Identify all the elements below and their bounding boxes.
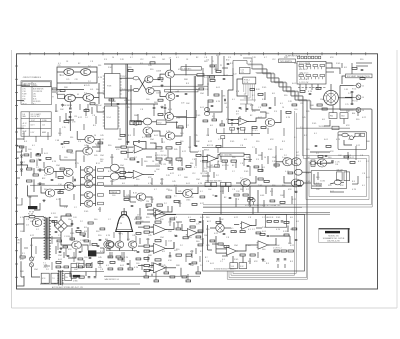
legend table 1: [21, 81, 52, 105]
capacitor C253: [215, 195, 218, 196]
volume box b: [239, 263, 247, 269]
transistor Q6: [145, 76, 153, 83]
svg-text:4.7K: 4.7K: [52, 161, 57, 163]
capacitor C93: [284, 259, 287, 260]
wire: [104, 275, 200, 277]
scanned page left edge: [11, 50, 13, 308]
svg-text:B 60: B 60: [226, 59, 229, 61]
resistor R56: [261, 127, 266, 129]
U7 feedback loop: [207, 161, 218, 168]
wire: [127, 232, 129, 239]
capacitor C233: [127, 141, 130, 142]
svg-text:B 32: B 32: [133, 192, 137, 194]
resistor R86: [166, 147, 172, 149]
wire: [149, 245, 153, 247]
resistor R80: [121, 146, 126, 148]
capacitor C80: [71, 223, 74, 224]
svg-text:T 6: T 6: [22, 101, 24, 103]
wire: [54, 189, 64, 191]
svg-text:B64: B64: [105, 239, 108, 241]
wire: [186, 110, 188, 128]
svg-text:SOUND MODULE FRAME 2: SOUND MODULE FRAME 2: [214, 268, 236, 271]
resistor R334: [146, 135, 151, 137]
wire: [167, 214, 177, 216]
left-mid wires 3: [17, 146, 43, 205]
transistor Q32: [32, 219, 42, 227]
resistor R222: [352, 67, 357, 69]
resistor R348: [200, 196, 205, 198]
svg-text:0.1: 0.1: [58, 63, 61, 65]
svg-text:IC 8: IC 8: [42, 278, 45, 280]
transistor Q18: [84, 167, 92, 174]
connector G output: [354, 95, 361, 100]
sub-board row 1 parts: [299, 65, 325, 77]
resistor R200: [60, 90, 65, 92]
resistor R146: [250, 254, 255, 256]
wire U15 in: [234, 223, 239, 225]
resistor R164: [30, 160, 34, 162]
wire: [219, 217, 221, 224]
wire Q8 top: [169, 59, 171, 70]
wire: [69, 272, 71, 278]
wire left feed: [17, 165, 28, 168]
capacitor C601: [159, 263, 162, 264]
wire: [275, 155, 277, 168]
resistor R288: [216, 221, 221, 223]
wire: [60, 190, 65, 194]
svg-text:4.7K: 4.7K: [134, 267, 139, 269]
svg-text:D 880: D 880: [73, 280, 78, 282]
resistor R367: [66, 214, 71, 216]
capacitor C284: [199, 221, 202, 222]
wire base: [81, 169, 85, 171]
svg-text:C 8: C 8: [178, 161, 181, 163]
resistor R126: [155, 221, 161, 223]
wire base: [81, 203, 85, 205]
resistor R604: [196, 272, 201, 274]
resistor R273: [56, 261, 61, 263]
junction: [245, 244, 246, 245]
capacitor C275: [89, 257, 92, 258]
top-right board tick grid: [300, 67, 323, 79]
pill stack right: [204, 108, 209, 112]
wire: [125, 177, 132, 179]
resistor R602: [164, 272, 169, 274]
resistor R276: [98, 261, 103, 263]
capacitor C45: [246, 109, 249, 110]
junction: [161, 81, 162, 82]
resistor R601: [154, 280, 159, 282]
svg-text:R 9: R 9: [78, 141, 81, 143]
wire: [69, 102, 71, 108]
svg-text:CIRCUIT SYMBOLS: CIRCUIT SYMBOLS: [23, 77, 42, 79]
wire: [151, 274, 153, 276]
label box above PCM: [240, 68, 251, 74]
resistor R132: [183, 237, 188, 239]
capacitor C96: [39, 159, 42, 160]
svg-text:4.7: 4.7: [154, 189, 157, 191]
wire: [104, 175, 110, 177]
svg-text:1.2: 1.2: [88, 65, 91, 67]
capacitor C402: [79, 251, 82, 252]
wire: [20, 261, 22, 277]
capacitor C92: [277, 259, 280, 260]
svg-text:10: 10: [94, 135, 96, 137]
svg-text:C 8: C 8: [204, 57, 207, 59]
wire: [30, 184, 302, 186]
wire Q11 out: [274, 110, 281, 123]
transistor Q4: [83, 94, 94, 102]
svg-text:Q 75: Q 75: [22, 89, 26, 91]
resistor R315: [262, 104, 267, 106]
svg-text:B 51: B 51: [96, 163, 100, 165]
IC U2 pins: [103, 108, 120, 126]
resistor R510: [170, 276, 175, 278]
scattered value labels: [20, 57, 371, 273]
svg-text:R 9: R 9: [228, 57, 231, 59]
svg-text:0.1: 0.1: [174, 196, 177, 198]
wire: [149, 250, 153, 252]
title block shadow right: [348, 228, 349, 243]
svg-text:102: 102: [224, 103, 227, 105]
wire: [132, 248, 134, 251]
svg-text:CHK W/ SET: CHK W/ SET: [31, 116, 40, 118]
capacitor C223: [361, 70, 364, 71]
wire U7 to delay line: [217, 155, 221, 159]
wire Q7-Q9: [154, 91, 166, 97]
capacitor C85: [169, 256, 172, 257]
svg-text:C 2.2: C 2.2: [176, 118, 180, 120]
wire: [130, 196, 137, 198]
resistor R22: [136, 121, 141, 125]
svg-text:R 9: R 9: [274, 111, 277, 113]
svg-text:C 68: C 68: [55, 140, 59, 142]
resistor R90: [146, 204, 151, 206]
svg-text:4.7: 4.7: [130, 57, 133, 59]
svg-text:0.01: 0.01: [90, 89, 93, 91]
long double vertical x194 b: [195, 76, 197, 146]
resistor R12: [64, 121, 69, 123]
svg-text:GR 45120: GR 45120: [33, 101, 40, 103]
CRT neck connector circle: [324, 90, 339, 105]
wire: [61, 238, 72, 245]
capacitor C289: [223, 233, 226, 234]
wire stub from border: [17, 127, 25, 129]
wire: [104, 186, 302, 188]
svg-text:10: 10: [112, 57, 114, 59]
ellipse gate B: [110, 173, 119, 180]
wire: [341, 181, 344, 183]
extra speckle labels middle band: [58, 55, 309, 201]
legend table 2 text: [22, 113, 48, 136]
wire: [210, 227, 216, 229]
svg-text:4.7K: 4.7K: [106, 235, 111, 237]
op-amp U11: [152, 263, 167, 273]
wire: [115, 172, 120, 174]
border tick marks left: [15, 66, 18, 277]
legend table 1 rows: [22, 89, 43, 106]
wire: [245, 158, 252, 160]
bottom row box b: [79, 264, 85, 268]
resistor R96: [231, 160, 236, 162]
wire: [228, 123, 239, 125]
resistor R501: [116, 256, 121, 258]
svg-text:PLATFORM OF TH: PLATFORM OF TH: [286, 54, 301, 57]
svg-text:NOT: NOT: [33, 83, 36, 85]
svg-text:C 2058 NTC: C 2058 NTC: [182, 68, 192, 70]
transistor Q8: [165, 70, 174, 78]
capacitor C83b: [94, 277, 97, 278]
transistor Q19: [84, 174, 92, 181]
svg-text:VR 11: VR 11: [22, 103, 26, 105]
audio section outer box: [203, 215, 305, 272]
resistor R114: [20, 256, 25, 258]
svg-text:B64: B64: [352, 113, 355, 115]
svg-text:B2: B2: [196, 57, 198, 59]
wire: [60, 233, 62, 239]
svg-text:4.7K: 4.7K: [336, 139, 341, 141]
svg-text:406-733-4-720: 406-733-4-720: [327, 241, 339, 243]
resistor R311: [203, 120, 208, 122]
svg-text:6 8 1 50: 6 8 1 50: [222, 165, 229, 167]
svg-text:1.8: 1.8: [169, 57, 171, 59]
resistor R505: [136, 222, 141, 224]
resistor R130: [176, 254, 181, 256]
wire: [348, 135, 349, 136]
bottom-center extra wires: [112, 220, 200, 268]
wire: [207, 225, 209, 250]
wire: [31, 238, 33, 257]
diode D10: [20, 155, 22, 157]
resistor R98: [258, 178, 263, 180]
resistor R403: [84, 240, 89, 242]
resistor R252: [258, 169, 263, 171]
svg-text:C 98: C 98: [22, 91, 25, 93]
svg-text:C 08: C 08: [168, 241, 172, 243]
capacitor C216: [269, 108, 272, 109]
resistor R83: [120, 177, 125, 179]
resistor R27: [158, 114, 163, 116]
resistor R202: [84, 109, 89, 111]
capacitor C287: [127, 263, 130, 264]
svg-text:0.1: 0.1: [200, 191, 203, 193]
svg-text:C 1.75: C 1.75: [335, 162, 340, 164]
op-amp U15: [240, 222, 252, 230]
ellipse gate pair lower: [143, 118, 151, 125]
wire: [40, 283, 140, 285]
scanned page right edge: [396, 50, 398, 308]
transistor Q12: [85, 135, 95, 143]
wire: [111, 98, 113, 106]
capacitor C401: [67, 255, 70, 256]
degauss coil box: [338, 132, 367, 150]
resistor R507: [176, 228, 181, 230]
tone circle: [216, 224, 224, 232]
wire: [215, 236, 217, 253]
op-amp U14: [257, 241, 270, 249]
resistor R504: [128, 268, 133, 270]
resistor R328: [98, 142, 103, 144]
svg-text:0.1: 0.1: [198, 151, 201, 153]
resistor R128: [155, 259, 161, 261]
capacitor C61: [159, 162, 162, 163]
svg-text:E 8: E 8: [325, 101, 328, 103]
resistor R214: [258, 93, 263, 95]
wire: [95, 166, 97, 206]
resistor R271: [92, 243, 97, 245]
transistor Q37: [128, 241, 136, 248]
resistor R101: [234, 194, 239, 196]
resistor R11: [90, 103, 95, 105]
wire Q26 out: [192, 187, 198, 194]
transistor Q15: [64, 168, 74, 176]
resistor R88: [166, 158, 172, 160]
connector B output: [354, 108, 361, 113]
resistor R502: [108, 268, 113, 270]
wire: [287, 226, 289, 233]
fuse F1: [29, 216, 35, 218]
ellipse high box: [311, 160, 315, 166]
resistor R407: [86, 264, 91, 266]
REG box: [65, 274, 72, 281]
wire: [139, 208, 141, 216]
gate ellipse D: [296, 180, 304, 186]
small box above bus b: [240, 127, 245, 130]
wire U13-U14: [237, 245, 259, 251]
yoke neck box: [122, 212, 127, 215]
transistor Q1: [64, 69, 74, 76]
diode D6: [39, 183, 41, 185]
wire: [228, 118, 239, 120]
wire: [166, 267, 177, 269]
wire Q3-Q4: [75, 97, 83, 99]
wire: [217, 132, 260, 134]
svg-text:4.7K: 4.7K: [286, 117, 291, 119]
svg-text:4.7K: 4.7K: [166, 131, 171, 133]
svg-text:J4: J4: [362, 97, 364, 99]
svg-text:C28: C28: [75, 79, 78, 81]
resistor R262: [326, 145, 331, 147]
resistor R277: [136, 232, 141, 234]
wire diode stack: [21, 150, 23, 176]
svg-text:R 1: R 1: [22, 253, 25, 255]
label box PRESS: [109, 190, 120, 193]
wire: [216, 248, 226, 250]
wire: [203, 212, 330, 214]
svg-text:F64: F64: [330, 116, 333, 118]
wire U12 net: [182, 224, 187, 231]
svg-text:L 68: L 68: [168, 222, 171, 224]
wire: [37, 183, 44, 185]
svg-text:C86 C87: C86 C87: [337, 170, 343, 172]
svg-text:SM 21: SM 21: [204, 150, 209, 152]
wire: [98, 98, 100, 105]
degauss part b: [360, 133, 364, 136]
wire: [33, 168, 35, 174]
svg-text:B 2: B 2: [205, 257, 208, 259]
wire base: [81, 183, 85, 185]
svg-text:C12: C12: [166, 189, 169, 191]
resistor R21: [130, 121, 135, 125]
capacitor C46: [224, 99, 225, 102]
resistor R291: [260, 233, 265, 235]
resistor R305: [109, 99, 114, 101]
transistor Q7: [146, 87, 154, 94]
svg-text:1 25: 1 25: [345, 104, 349, 106]
resistor R113: [79, 276, 84, 278]
junction: [207, 83, 208, 84]
wire: [61, 216, 72, 220]
wire: [208, 249, 213, 251]
svg-text:C 8: C 8: [258, 107, 261, 109]
wire: [197, 232, 203, 234]
svg-text:P2: P2: [220, 65, 222, 67]
resistor R162: [20, 146, 24, 148]
regulator box A: [41, 273, 49, 283]
resistor R246: [174, 200, 179, 202]
transistor Q27: [241, 179, 251, 187]
wire: [166, 121, 178, 123]
wire: [304, 182, 312, 184]
wire CRT top: [330, 84, 332, 90]
wire Q4 to loop: [94, 83, 99, 98]
svg-text:a 41 a 4 B: a 41 a 4 B: [299, 69, 308, 71]
label box TOP VERT DEFLECTION: [346, 74, 373, 78]
capacitor C292: [267, 235, 270, 236]
diode D12: [20, 169, 22, 171]
capacitor C12: [69, 108, 72, 109]
capacitor C257: [295, 191, 298, 192]
resistor R123: [144, 250, 149, 252]
PCM left loop wire: [237, 79, 247, 104]
IC U2 box: [105, 106, 119, 129]
resistor R345: [166, 196, 171, 198]
wire degauss internals: [338, 134, 342, 136]
diode D5: [39, 169, 41, 171]
wire: [73, 185, 76, 187]
transistor Q16: [64, 182, 74, 190]
resistor R232: [120, 134, 125, 136]
capacitor C50: [61, 143, 64, 144]
svg-text:4.7: 4.7: [178, 175, 181, 177]
ground G5: [59, 247, 62, 250]
transistor Q35: [106, 241, 114, 248]
transistor Q31: [317, 159, 327, 167]
svg-text:330: 330: [266, 113, 269, 115]
resistor R379: [136, 258, 141, 260]
center tile long verticals: [24, 128, 284, 176]
label box NTC: [181, 67, 201, 70]
wire: [291, 161, 293, 163]
capacitor C213: [211, 106, 214, 107]
wire Q23-Q24: [152, 131, 165, 136]
capacitor C272: [99, 239, 102, 240]
PCM pin drop wires: [244, 84, 255, 102]
capacitor C31: [351, 104, 354, 105]
resistor R355: [270, 200, 275, 202]
resistor R361: [344, 156, 349, 158]
resistor R163: [36, 154, 41, 156]
wire fuse run: [24, 216, 29, 218]
resistor R370: [100, 228, 105, 230]
svg-text:C12: C12: [140, 59, 143, 61]
resistor R100: [274, 164, 279, 166]
resistor R300 on wire: [197, 74, 204, 77]
svg-text:J2: J2: [362, 85, 364, 87]
op-amp U10: [152, 243, 167, 253]
svg-text:0.1: 0.1: [176, 57, 179, 59]
bus staircase harness: [203, 64, 372, 279]
